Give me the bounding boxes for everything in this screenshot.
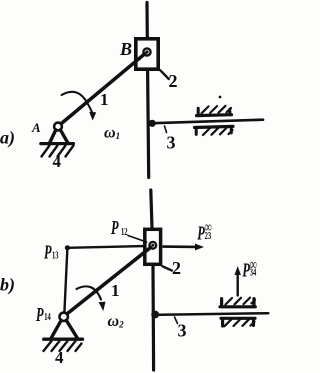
slider block 2 (fig b) <box>145 229 161 264</box>
pivot A circle <box>54 123 62 131</box>
leader to label 3 (fig b) <box>175 317 178 324</box>
link 3 rod (fig a) <box>149 120 263 124</box>
svg-text:b): b) <box>0 275 15 296</box>
pivot triangle support (fig b) <box>51 320 77 338</box>
node: junction of link 3 with slider line (fig a) <box>149 120 156 127</box>
svg-text:3: 3 <box>167 133 176 153</box>
force arrow P34 <box>236 274 238 296</box>
svg-text:13: 13 <box>52 249 59 261</box>
fixed guide top rail (fig a) <box>197 113 232 117</box>
svg-text:1: 1 <box>100 90 109 109</box>
label P34 infinity <box>242 255 257 281</box>
wire: vertical guide line above block B <box>145 3 149 38</box>
label P23 infinity <box>196 218 211 245</box>
svg-text:A: A <box>31 120 41 135</box>
label P12 <box>110 216 127 239</box>
node: corner point of P13 <box>65 245 70 250</box>
leader to label 3 (fig a) <box>165 126 167 133</box>
svg-text:B: B <box>119 39 132 59</box>
svg-text:a): a) <box>0 128 15 149</box>
link 3 rod (fig b) <box>153 313 269 315</box>
pivot circle (fig b) <box>60 313 68 321</box>
leader to label 2 (fig a) <box>160 70 169 79</box>
svg-text:1: 1 <box>111 281 120 300</box>
fixed guide bottom rail (fig a) <box>195 126 234 127</box>
svg-text:3: 3 <box>178 321 187 341</box>
force P13 horizontal construction line <box>67 246 145 248</box>
svg-text:P: P <box>35 303 44 326</box>
slider block 2 (B) <box>136 39 158 69</box>
fixed guide top rail (fig b) <box>220 305 255 308</box>
omega2 arc arrow <box>77 286 102 299</box>
force P12 leader line <box>128 236 147 243</box>
svg-text:4: 4 <box>53 152 62 171</box>
label P13 <box>43 240 59 263</box>
ground hatching (fig b) <box>44 341 82 351</box>
svg-text:4: 4 <box>55 348 64 367</box>
ground hatching at A <box>42 146 74 157</box>
omega1 arc arrow <box>62 92 93 114</box>
svg-text:12: 12 <box>121 225 127 237</box>
figure a <box>41 3 263 178</box>
speckle dot <box>219 96 222 99</box>
leader to label 2 (fig b) <box>163 266 172 270</box>
pin joint (fig b) <box>149 242 156 249</box>
pivot A triangle support <box>50 130 68 143</box>
svg-text:14: 14 <box>44 310 51 322</box>
svg-text:ω2: ω2 <box>108 313 125 330</box>
force arrow P23 <box>164 245 197 248</box>
figure b <box>44 190 269 370</box>
ground line (fig b) <box>44 338 83 341</box>
link 1 (crank, fig b) <box>64 248 150 317</box>
svg-text:2: 2 <box>169 71 178 91</box>
svg-text:P: P <box>110 216 119 239</box>
wire: vertical guide line below block (fig b) <box>151 266 155 370</box>
force P14 vertical construction line <box>64 248 67 313</box>
svg-text:2: 2 <box>172 258 181 278</box>
svg-text:ω1: ω1 <box>104 125 120 142</box>
svg-text:34: 34 <box>250 266 257 278</box>
pin B (revolute joint) <box>143 48 150 55</box>
svg-text:23: 23 <box>205 229 212 241</box>
link 1 (crank A-B) <box>58 54 145 127</box>
wire: vertical guide line below block B <box>148 71 149 178</box>
svg-text:P: P <box>43 240 52 263</box>
node: junction of link 3 with slider line (fig b) <box>151 311 159 319</box>
wire: vertical guide line above block (fig b) <box>151 190 152 228</box>
label P14 <box>35 303 51 326</box>
ground line at A <box>41 142 74 145</box>
fixed guide bottom rail (fig b) <box>221 317 255 320</box>
